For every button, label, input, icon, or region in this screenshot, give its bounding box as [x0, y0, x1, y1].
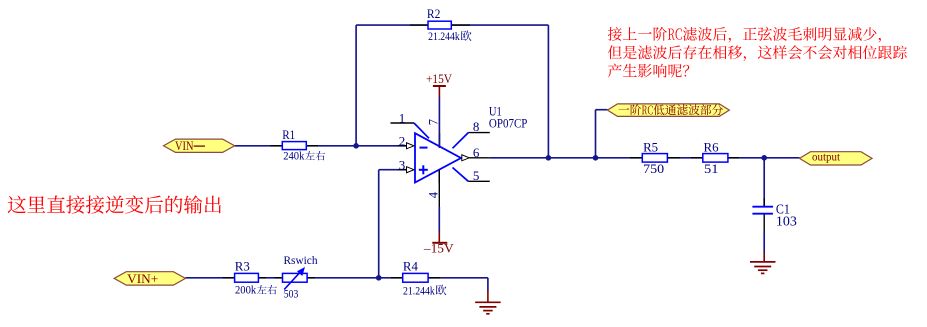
svg-text:3: 3 [399, 157, 406, 172]
svg-text:R4: R4 [403, 259, 418, 274]
svg-text:R6: R6 [704, 139, 719, 154]
svg-text:Rswich: Rswich [284, 255, 318, 267]
svg-text:5: 5 [473, 168, 480, 183]
svg-text:103: 103 [776, 215, 797, 230]
svg-text:4: 4 [427, 191, 441, 198]
svg-text:503: 503 [284, 287, 299, 301]
svg-text:R5: R5 [643, 139, 658, 154]
svg-text:240k: 240k [283, 149, 304, 163]
svg-text:51: 51 [704, 161, 719, 176]
svg-text:OP07CP: OP07CP [489, 117, 528, 131]
svg-text:R3: R3 [235, 258, 250, 273]
svg-text:R1: R1 [282, 127, 295, 142]
svg-text:6: 6 [473, 145, 480, 160]
svg-text:7: 7 [426, 119, 440, 125]
svg-text:R2: R2 [427, 6, 441, 21]
svg-text:21.244k: 21.244k [428, 29, 460, 43]
svg-text:–15V: –15V [423, 242, 454, 256]
svg-text:200k: 200k [235, 283, 256, 297]
svg-text:21.244k: 21.244k [403, 283, 435, 297]
svg-text:+15V: +15V [426, 72, 452, 86]
svg-text:2: 2 [399, 134, 406, 149]
svg-text:8: 8 [473, 119, 480, 134]
svg-text:750: 750 [643, 161, 664, 176]
svg-text:output: output [812, 150, 841, 164]
svg-text:VIN: VIN [175, 138, 194, 153]
svg-text:1: 1 [399, 110, 406, 125]
svg-text:VIN+: VIN+ [127, 271, 158, 286]
